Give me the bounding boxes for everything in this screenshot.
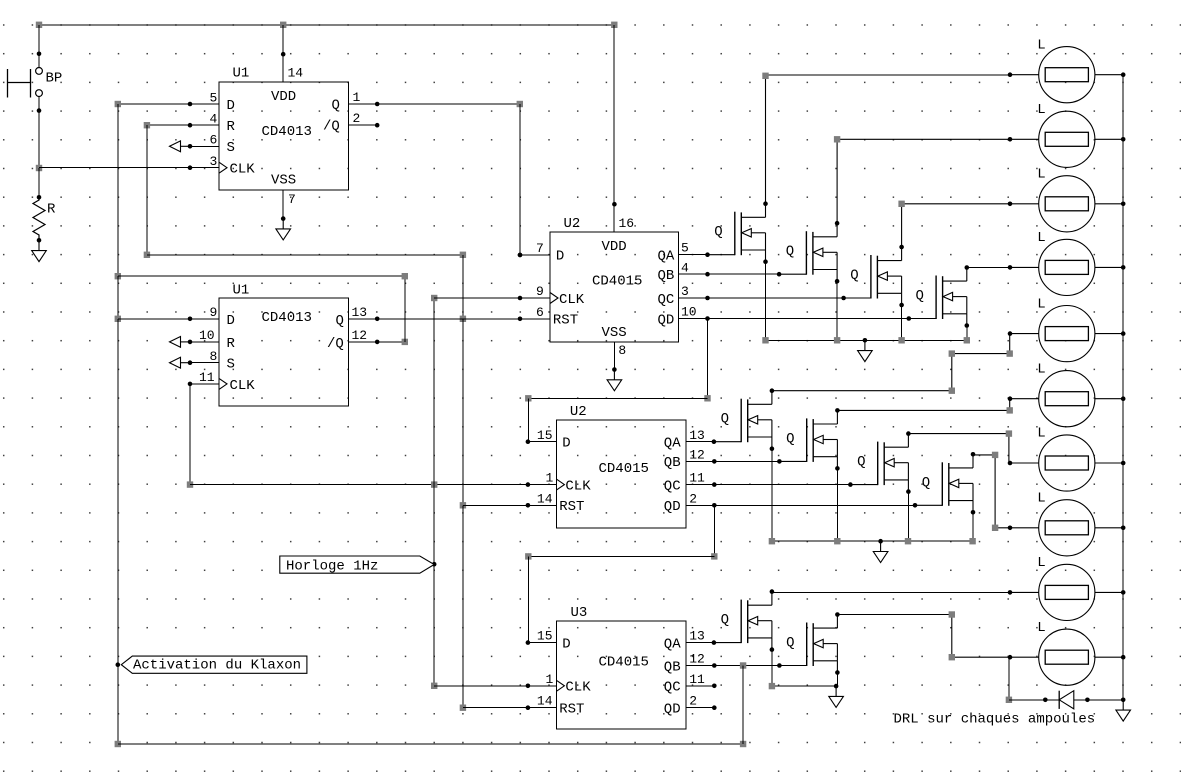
wire reset horizontal to x462 xyxy=(147,254,463,256)
wire ground bus middle cluster xyxy=(772,540,973,542)
node dot U2 VSS xyxy=(612,367,617,372)
wire source Q10 to ground bus xyxy=(836,673,838,687)
signal flag Horloge 1Hz xyxy=(280,556,434,574)
svg-text:QB: QB xyxy=(664,659,681,675)
wire /Q12 vertical xyxy=(404,276,406,342)
node dot on BP wire xyxy=(37,52,42,57)
node dot D15 of U3 xyxy=(526,640,531,645)
input arrow on S pin of U1 lower xyxy=(170,357,191,368)
wire drain Q8 to lamp L8 xyxy=(973,455,1010,528)
svg-text:R: R xyxy=(227,119,236,135)
wire U1 VDD riser xyxy=(282,25,284,82)
junction square clock bus top xyxy=(431,295,437,301)
wire left bus bottom segment xyxy=(117,665,119,744)
svg-text:CLK: CLK xyxy=(230,162,256,178)
lamp L8 xyxy=(1008,491,1126,556)
svg-text:CD4013: CD4013 xyxy=(262,310,312,326)
wire drain Q1 to lamp L1 xyxy=(766,75,1011,204)
node dot pin12 stub xyxy=(712,459,717,464)
junction square bus1 c xyxy=(898,337,904,343)
wire R4 vertical drop xyxy=(146,125,148,255)
svg-text:CD4015: CD4015 xyxy=(599,654,649,670)
junction square klaxon tap xyxy=(740,662,746,668)
junction square /Q12 top corner xyxy=(402,273,408,279)
lamp L5 xyxy=(1008,296,1126,361)
wire diode left segment xyxy=(1009,699,1059,701)
push-button BP xyxy=(8,68,63,98)
input arrow on S pin xyxy=(170,141,191,152)
wire QB4 to gate Q2 xyxy=(708,273,780,275)
wire D7 horizontal xyxy=(520,254,550,256)
junction square D5 corner xyxy=(115,101,121,107)
svg-text:10: 10 xyxy=(681,305,697,320)
wire right lamp rail xyxy=(1122,75,1124,700)
node dot U2 VDD pin xyxy=(612,202,617,207)
svg-text:11: 11 xyxy=(689,672,705,687)
wire D5 horizontal xyxy=(118,103,219,105)
node dot pin5 xyxy=(188,102,193,107)
junction square at CLK tap xyxy=(36,165,42,171)
node dot diode cathode side xyxy=(1085,698,1090,703)
junction square top rail at U1 VDD riser xyxy=(280,22,286,28)
transistor Q2 xyxy=(777,221,840,284)
node dot at D7 join xyxy=(518,253,523,258)
wire ground bus top cluster xyxy=(766,339,967,341)
junction square clock corner xyxy=(187,481,193,487)
svg-text:QC: QC xyxy=(664,478,681,494)
wire clock horizontal xyxy=(190,484,556,486)
transistor Q1 xyxy=(705,201,768,264)
svg-text:QD: QD xyxy=(664,701,681,717)
wire reset vertical middle xyxy=(462,319,464,506)
svg-text:CLK: CLK xyxy=(565,479,591,495)
wire QB12 to gate Q6 xyxy=(714,460,779,462)
wire U2 VSS to ground xyxy=(613,342,615,370)
wire QC3 to gate Q3 xyxy=(708,297,844,299)
wire Q1 vertical drop xyxy=(519,104,521,255)
node dot pin10 xyxy=(188,340,193,345)
node dot pin2 of U3 end xyxy=(712,705,717,710)
wire QD10 to gate Q4 xyxy=(708,318,909,320)
shift register U3 CD4015 xyxy=(528,605,714,729)
svg-text:S: S xyxy=(227,357,235,373)
node dot /Q2 end xyxy=(375,123,380,128)
junction square bus2 c xyxy=(905,538,911,544)
node dot ground tap top cluster xyxy=(863,338,868,343)
shift register U2 CD4015 (upper) xyxy=(521,216,708,358)
svg-text:9: 9 xyxy=(210,305,218,320)
svg-text:QA: QA xyxy=(664,636,681,652)
svg-text:16: 16 xyxy=(619,216,635,231)
node dot U1 VDD pin xyxy=(281,52,286,57)
transistor Q7 xyxy=(848,431,911,494)
wire drain Q2 to lamp L2 xyxy=(837,139,1010,223)
wire source Q2 to ground bus xyxy=(836,281,838,340)
wire junction to resistor R xyxy=(38,168,40,199)
svg-text:3: 3 xyxy=(210,154,218,169)
svg-text:S: S xyxy=(227,140,235,156)
svg-text:13: 13 xyxy=(352,305,368,320)
svg-text:DRL sur chaques ampoules: DRL sur chaques ampoules xyxy=(894,712,1096,728)
ground middle cluster xyxy=(873,541,888,562)
wire R4 horizontal xyxy=(147,124,219,126)
ground bottom cluster xyxy=(829,686,844,707)
node dot Q13 stub xyxy=(375,317,380,322)
svg-text:2: 2 xyxy=(689,491,697,506)
wire QD2 to D15 of U3 horizontal xyxy=(528,555,714,557)
wire source Q4 to ground bus xyxy=(966,325,968,340)
svg-text:Horloge 1Hz: Horloge 1Hz xyxy=(286,558,378,574)
node dot /Q12 stub xyxy=(375,340,380,345)
wire drain Q9 riser xyxy=(771,591,773,594)
node dot pin3 xyxy=(188,165,193,170)
node dot pin11 xyxy=(188,382,193,387)
junction square bus2 a xyxy=(769,538,775,544)
svg-text:15: 15 xyxy=(537,629,553,644)
svg-text:QD: QD xyxy=(664,499,681,515)
node dot ground tap bottom cluster xyxy=(834,684,839,689)
junction square D15 corner xyxy=(525,395,531,401)
svg-text:6: 6 xyxy=(536,305,544,320)
svg-text:QB: QB xyxy=(658,268,675,284)
svg-text:CLK: CLK xyxy=(565,680,591,696)
wire source Q1 to ground bus xyxy=(765,262,767,341)
diode DRL xyxy=(1059,691,1074,709)
junction square drain Q1 corner xyxy=(762,73,768,79)
wire drain Q9 to lamp L9 xyxy=(772,591,1010,593)
transistor Q5 xyxy=(712,388,775,451)
wire U1 VSS to ground xyxy=(282,190,284,219)
junction square R4 corner xyxy=(144,122,150,128)
wire source Q8 to ground bus xyxy=(972,512,974,541)
wire reset vertical lower xyxy=(462,505,464,707)
svg-text:QB: QB xyxy=(664,455,681,471)
svg-text:U2: U2 xyxy=(564,216,581,232)
node dot pin14 of U3 xyxy=(526,705,531,710)
node dot pin11 of U3 end xyxy=(712,684,717,689)
wire clock bus vertical xyxy=(433,298,435,686)
svg-text:8: 8 xyxy=(618,343,626,358)
junction square Q8 path a xyxy=(992,452,998,458)
svg-text:Activation du Klaxon: Activation du Klaxon xyxy=(133,658,301,674)
wire drain Q3 to lamp L3 xyxy=(902,204,1010,247)
lamp L6 xyxy=(1008,361,1126,426)
wire QD2 to gate Q8 xyxy=(714,504,915,506)
node dot diode anode side xyxy=(1043,698,1048,703)
svg-text:D: D xyxy=(227,98,235,114)
wire Q1 horizontal xyxy=(349,103,520,105)
wire CLK11 vertical drop xyxy=(189,384,191,485)
junction square clock bus bottom xyxy=(431,683,437,689)
svg-text:Q: Q xyxy=(336,313,344,329)
wire reset vertical upper xyxy=(462,255,464,319)
wire source Q6 to ground bus xyxy=(836,468,838,541)
node dot pin4 stub xyxy=(705,272,710,277)
svg-text:RST: RST xyxy=(559,499,584,515)
svg-text:15: 15 xyxy=(537,428,553,443)
junction square left bus at D9 xyxy=(115,316,121,322)
wire QD10 vertical drop xyxy=(707,319,709,399)
svg-text:QC: QC xyxy=(658,292,675,308)
svg-text:1: 1 xyxy=(546,672,554,687)
junction square bus1 a xyxy=(762,337,768,343)
svg-text:13: 13 xyxy=(689,629,705,644)
svg-text:U3: U3 xyxy=(571,605,588,621)
ground U2 VSS xyxy=(607,370,622,391)
node dot pin12 of U3 stub xyxy=(712,663,717,668)
wire QC11 to gate Q7 xyxy=(714,484,850,486)
junction square reset wire corner xyxy=(144,252,150,258)
svg-text:9: 9 xyxy=(536,284,544,299)
wire QD10 to D15 horizontal xyxy=(528,397,707,399)
svg-text:/Q: /Q xyxy=(327,336,344,352)
transistor Q10 xyxy=(777,612,840,675)
wire left bus upper segment xyxy=(117,104,119,276)
wire BP to CLK junction xyxy=(38,96,40,168)
svg-text:13: 13 xyxy=(689,428,705,443)
wire ground bus bottom cluster xyxy=(772,685,836,687)
wire bottom klaxon horizontal xyxy=(118,743,743,745)
svg-text:2: 2 xyxy=(353,111,361,126)
svg-text:VSS: VSS xyxy=(271,173,296,189)
junction square bus1 b xyxy=(834,337,840,343)
junction square Q10 path a xyxy=(949,611,955,617)
wire QD2 vertical drop xyxy=(713,505,715,556)
svg-text:1: 1 xyxy=(546,471,554,486)
ground U1 VSS xyxy=(276,219,291,240)
node dot pin11 stub xyxy=(712,482,717,487)
svg-text:BP: BP xyxy=(46,71,63,87)
wire CLK3 from BP line xyxy=(39,167,190,169)
svg-text:12: 12 xyxy=(352,328,368,343)
svg-text:U2: U2 xyxy=(570,404,587,420)
junction square reset at RST14 of U3 xyxy=(460,705,466,711)
wire D15 stub xyxy=(528,441,557,443)
svg-text:7: 7 xyxy=(288,192,296,207)
svg-text:10: 10 xyxy=(199,328,215,343)
svg-text:7: 7 xyxy=(536,241,544,256)
wire Q13 to RST6 xyxy=(349,318,551,320)
lamp L2 xyxy=(1008,102,1126,167)
ground right rail xyxy=(1116,700,1131,721)
wire diode right segment xyxy=(1074,699,1123,701)
wire drain Q5 to lamp L5 xyxy=(772,334,1010,391)
junction square QD10 corner xyxy=(704,395,710,401)
wire /Q2 stub xyxy=(349,124,378,126)
svg-text:RST: RST xyxy=(553,313,578,329)
junction square left bus at y276 xyxy=(115,273,121,279)
svg-text:8: 8 xyxy=(210,349,218,364)
node dot activation flag tap xyxy=(116,662,121,667)
node dot U1 VSS xyxy=(281,216,286,221)
svg-text:U1: U1 xyxy=(233,283,250,299)
transistor Q4 xyxy=(907,265,970,328)
svg-text:11: 11 xyxy=(689,471,705,486)
junction square reset turn down xyxy=(460,252,466,258)
wire drain Q4 to lamp L4 xyxy=(967,266,1010,268)
wire QB12 of U3 to gate Q10 xyxy=(714,665,779,667)
flip-flop U1 CD4013 (lower) xyxy=(190,283,377,407)
wire RST14 horizontal xyxy=(463,504,557,506)
junction square Q6 path xyxy=(1007,407,1013,413)
junction square clock bus tap xyxy=(431,481,437,487)
node dot pin1 of U3 xyxy=(526,684,531,689)
node dot pin6 of U2 xyxy=(518,317,523,322)
lamp L1 xyxy=(1008,37,1126,102)
svg-text:14: 14 xyxy=(288,66,304,81)
node dot on Q1 wire xyxy=(375,102,380,107)
svg-text:12: 12 xyxy=(689,652,705,667)
svg-text:4: 4 xyxy=(210,112,218,127)
wire /Q12 horizontal xyxy=(349,341,405,343)
wire RST14 of U3 horizontal xyxy=(463,707,557,709)
wire source Q9 to ground bus xyxy=(771,650,773,687)
svg-text:D: D xyxy=(562,436,570,452)
junction square diode corner xyxy=(1006,697,1012,703)
junction square bottom klaxon right end xyxy=(740,741,746,747)
junction square Q5 path c xyxy=(1007,350,1013,356)
svg-text:Q: Q xyxy=(332,98,340,114)
node dot pin3 stub xyxy=(705,296,710,301)
node dot pin4 xyxy=(188,123,193,128)
svg-text:3: 3 xyxy=(681,284,689,299)
node dot pin14 of U2b xyxy=(526,503,531,508)
input arrow on R pin xyxy=(170,337,191,348)
wire U2 VDD riser from top rail xyxy=(613,25,615,232)
transistor Q3 xyxy=(841,245,904,308)
wire D15 vertical xyxy=(527,398,529,441)
wire klaxon vertical xyxy=(742,666,744,745)
svg-text:CD4013: CD4013 xyxy=(262,124,312,140)
svg-text:D: D xyxy=(556,249,564,265)
svg-text:1: 1 xyxy=(353,90,361,105)
wire left bus middle segment xyxy=(117,276,119,319)
node dot resistor top xyxy=(37,195,42,200)
junction square bottom-left corner xyxy=(115,741,121,747)
junction square Q1 corner xyxy=(517,101,523,107)
junction square bus3 a xyxy=(769,683,775,689)
junction square bus2 b xyxy=(834,538,840,544)
shift register U2 CD4015 (lower) xyxy=(528,404,714,528)
svg-text:RST: RST xyxy=(559,701,584,717)
junction square drain Q2 corner xyxy=(834,136,840,142)
node dot D15 xyxy=(526,439,531,444)
svg-text:R: R xyxy=(47,202,56,218)
svg-text:QA: QA xyxy=(664,436,681,452)
junction square top-left xyxy=(36,22,42,28)
junction square reset joins Q13 line xyxy=(460,316,466,322)
node dot below BP xyxy=(37,108,42,113)
svg-text:5: 5 xyxy=(681,241,689,256)
transistor Q8 xyxy=(913,452,976,515)
svg-text:QD: QD xyxy=(658,312,675,328)
junction square Q10 path b xyxy=(949,654,955,660)
node dot ground tap middle cluster xyxy=(878,539,883,544)
junction square bus2 d xyxy=(969,538,975,544)
node dot pin8 xyxy=(188,360,193,365)
lamp L3 xyxy=(1008,167,1126,232)
wire left bus lower segment xyxy=(117,319,119,665)
wire D15 of U3 vertical xyxy=(527,556,529,642)
junction square QD2 corner xyxy=(711,553,717,559)
node dot pin9 xyxy=(188,317,193,322)
transistor Q6 xyxy=(777,408,840,471)
lamp L7 xyxy=(1008,426,1126,491)
node dot pin6 xyxy=(188,144,193,149)
node dot pin2 stub xyxy=(712,503,717,508)
ground top cluster xyxy=(858,340,873,361)
svg-text:6: 6 xyxy=(210,133,218,148)
svg-text:VDD: VDD xyxy=(602,239,627,255)
svg-text:4: 4 xyxy=(681,260,689,275)
svg-text:D: D xyxy=(562,636,570,652)
junction square drain Q3 corner xyxy=(898,201,904,207)
wire top rail left segment xyxy=(39,24,283,26)
flip-flop U1 CD4013 (upper) xyxy=(190,66,377,208)
svg-text:11: 11 xyxy=(199,370,215,385)
junction square Q5 path a xyxy=(949,388,955,394)
wire source Q7 to ground bus xyxy=(907,492,909,542)
svg-text:CLK: CLK xyxy=(230,378,256,394)
svg-text:CD4015: CD4015 xyxy=(592,274,642,290)
svg-text:5: 5 xyxy=(210,90,218,105)
wire CLK9 horizontal xyxy=(434,297,550,299)
svg-text:VSS: VSS xyxy=(602,325,627,341)
wire CLK1 of U3 horizontal xyxy=(434,685,556,687)
svg-text:U1: U1 xyxy=(233,66,250,82)
signal flag Activation du Klaxon xyxy=(121,656,307,674)
svg-text:14: 14 xyxy=(537,491,553,506)
wire BP upper segment xyxy=(38,25,40,68)
svg-text:VDD: VDD xyxy=(271,89,296,105)
junction square /Q12 corner xyxy=(402,339,408,345)
wire D9 horizontal xyxy=(118,318,219,320)
transistor Q9 xyxy=(712,589,775,652)
junction square Q7 path xyxy=(1006,430,1012,436)
wire lamp L10 to diode vertical xyxy=(1008,657,1010,700)
junction square Q8 path b xyxy=(992,525,998,531)
svg-text:14: 14 xyxy=(537,694,553,709)
wire D15 of U3 stub xyxy=(528,642,557,644)
wire top rail right segment xyxy=(283,24,614,26)
wire source Q5 to ground bus xyxy=(771,449,773,542)
lamp L4 xyxy=(1008,230,1126,295)
node dot pin9 of U2 xyxy=(518,296,523,301)
node dot pin10 stub xyxy=(705,316,710,321)
junction square D15 of U3 corner xyxy=(525,553,531,559)
node dot horloge flag tap xyxy=(432,562,437,567)
resistor R xyxy=(33,198,56,241)
svg-text:QC: QC xyxy=(664,680,681,696)
node dot diode at rail xyxy=(1121,698,1126,703)
svg-text:12: 12 xyxy=(689,448,705,463)
wire drain Q7 to lamp L7 xyxy=(908,434,1009,463)
junction square Q5 path b xyxy=(949,350,955,356)
svg-text:D: D xyxy=(227,313,235,329)
node dot pin1 of U2b xyxy=(526,482,531,487)
wire /Q12 link horizontal xyxy=(118,275,405,277)
junction square reset at RST14 xyxy=(460,502,466,508)
svg-text:R: R xyxy=(227,336,236,352)
ground below resistor xyxy=(32,240,47,261)
node dot resistor bottom xyxy=(37,238,42,243)
svg-text:2: 2 xyxy=(689,694,697,709)
lamp L10 xyxy=(1008,620,1126,685)
wire source Q3 to ground bus xyxy=(901,305,903,341)
node dot pin7 xyxy=(518,253,523,258)
svg-text:CLK: CLK xyxy=(559,292,585,308)
junction square bus1 d xyxy=(964,337,970,343)
